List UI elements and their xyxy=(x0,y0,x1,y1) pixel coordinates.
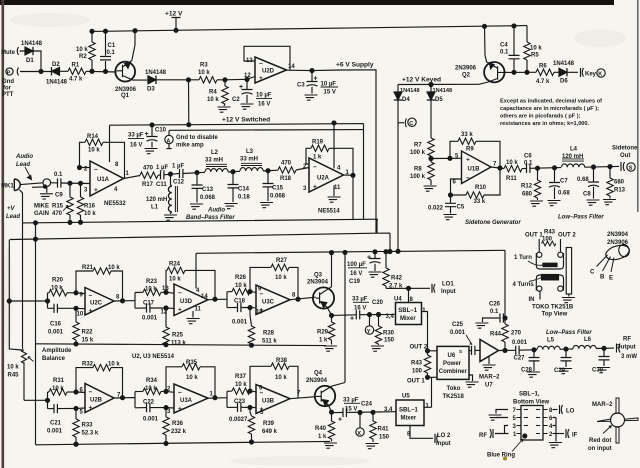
capacitor C16 xyxy=(48,304,77,336)
pin number labels left xyxy=(513,408,518,438)
svg-text:OUT 1: OUT 1 xyxy=(407,379,425,385)
svg-text:R15: R15 xyxy=(52,204,64,210)
diode D6 xyxy=(553,61,575,85)
svg-text:C17: C17 xyxy=(143,301,155,307)
node Sidetone Out connector xyxy=(612,146,638,172)
svg-text:C24: C24 xyxy=(361,402,373,408)
svg-text:+: + xyxy=(338,417,342,424)
svg-text:Blue Ring: Blue Ring xyxy=(487,453,515,459)
svg-text:R1: R1 xyxy=(72,63,80,69)
svg-text:150: 150 xyxy=(384,338,395,344)
junction pin9 xyxy=(74,291,78,295)
svg-text:−: − xyxy=(466,175,470,182)
capacitor C23 xyxy=(227,399,256,423)
junction pin10 U3C xyxy=(248,306,252,310)
svg-text:−: − xyxy=(313,164,317,171)
transformer TOKO top view xyxy=(536,248,571,300)
svg-text:OUT 1: OUT 1 xyxy=(525,233,543,239)
wire to U1B pin5 xyxy=(431,157,461,159)
junction row1 input xyxy=(46,299,50,303)
svg-text:SBL−1,: SBL−1, xyxy=(519,392,540,398)
junction ground link rail1 xyxy=(34,237,38,241)
svg-text:Band–Pass Filter: Band–Pass Filter xyxy=(186,215,235,221)
junction +12V switched tap xyxy=(187,78,191,82)
resistor R16 xyxy=(77,183,96,221)
wire C12 to L2 xyxy=(183,172,205,173)
junction U3A output xyxy=(213,396,217,400)
svg-text:R8: R8 xyxy=(414,167,422,173)
svg-text:S: S xyxy=(459,349,462,354)
wire row1 input xyxy=(9,293,47,309)
wire Q3 collector riser xyxy=(331,253,333,287)
svg-text:R17: R17 xyxy=(142,182,154,188)
svg-text:C: C xyxy=(409,121,413,127)
op-amp U2A xyxy=(303,158,350,192)
svg-text:MAR−2: MAR−2 xyxy=(592,402,613,408)
svg-text:3 mW: 3 mW xyxy=(621,354,637,360)
svg-text:R25: R25 xyxy=(172,333,184,339)
capacitor C15 xyxy=(263,171,286,201)
svg-text:−: − xyxy=(94,167,98,174)
junction Q1 emitter rail xyxy=(133,29,137,33)
svg-text:0.001: 0.001 xyxy=(512,340,528,346)
ground below C19 xyxy=(366,272,381,277)
junction Q3 emitter node xyxy=(330,313,334,317)
svg-text:+6 V Supply: +6 V Supply xyxy=(336,62,374,69)
svg-text:120 mH: 120 mH xyxy=(562,154,583,160)
junction pin13 xyxy=(164,290,168,294)
svg-text:C15: C15 xyxy=(272,186,284,192)
svg-text:LO1: LO1 xyxy=(442,282,454,288)
svg-text:SBL−1: SBL−1 xyxy=(399,408,419,414)
svg-text:C18: C18 xyxy=(234,299,246,305)
svg-text:capacitance are in microfarads: capacitance are in microfarads ( µF ); xyxy=(500,106,599,112)
wire row2 input xyxy=(24,392,48,409)
svg-text:649 k: 649 k xyxy=(262,429,278,435)
svg-text:R3: R3 xyxy=(200,63,208,69)
resistor R9 feedback xyxy=(448,132,500,168)
svg-text:NE5514: NE5514 xyxy=(318,209,340,215)
wire R2 bottom stem xyxy=(91,60,93,71)
wire L5 to L6 xyxy=(560,348,573,350)
svg-text:SBL−1: SBL−1 xyxy=(398,308,418,314)
wire U3A output xyxy=(208,391,227,407)
capacitor C9 xyxy=(54,172,63,199)
ground below C10 xyxy=(142,149,157,154)
svg-text:IF: IF xyxy=(572,433,578,439)
svg-text:2N3906: 2N3906 xyxy=(455,66,477,72)
label Red dot on input xyxy=(588,426,612,453)
scan border top xyxy=(0,0,614,5)
ground below R13 xyxy=(601,200,616,205)
svg-text:C23: C23 xyxy=(234,399,246,405)
resistor R2 xyxy=(76,42,95,60)
resistor R14 xyxy=(85,134,103,154)
wire D2 to R1 xyxy=(60,70,69,72)
junction C30 xyxy=(602,346,606,350)
resistor R31 xyxy=(48,378,77,395)
junction C10 top xyxy=(150,123,154,127)
ground below L1 xyxy=(162,215,177,220)
ground toko right stub xyxy=(560,298,575,303)
svg-text:1N4148: 1N4148 xyxy=(46,80,68,86)
svg-text:U3D: U3D xyxy=(180,299,193,305)
wire D3 to R3 xyxy=(156,79,199,81)
junction pin5 xyxy=(74,406,78,410)
inductor L2 xyxy=(205,150,228,172)
wire pin9 xyxy=(76,292,85,295)
inductor L3 xyxy=(240,149,263,171)
resistor R32 feedback xyxy=(76,362,123,398)
svg-text:IN: IN xyxy=(529,297,535,303)
junction OUT1 xyxy=(426,375,430,379)
svg-text:MAR−2: MAR−2 xyxy=(479,375,500,381)
svg-text:R43: R43 xyxy=(544,230,556,236)
svg-text:Audio: Audio xyxy=(15,154,33,160)
svg-text:C25: C25 xyxy=(452,322,464,328)
scan border right xyxy=(637,0,639,212)
wire pins 7 5 to ground xyxy=(496,410,508,418)
svg-text:Gnd: Gnd xyxy=(2,79,14,85)
capacitor C22 xyxy=(135,400,174,423)
svg-text:U6: U6 xyxy=(448,353,456,359)
resistor R12 xyxy=(521,168,541,200)
svg-text:A: A xyxy=(166,138,170,144)
op-amp U3A xyxy=(167,384,214,415)
svg-text:33 µF: 33 µF xyxy=(352,297,368,303)
wire U2D feedback loop xyxy=(244,46,290,70)
svg-text:12: 12 xyxy=(161,310,168,316)
svg-text:270: 270 xyxy=(511,331,522,337)
svg-text:C2: C2 xyxy=(232,97,240,103)
svg-text:Mixer: Mixer xyxy=(400,316,416,322)
junction U1B output xyxy=(498,166,502,170)
junction R33 rail xyxy=(74,442,78,446)
svg-text:U1B: U1B xyxy=(468,167,481,173)
svg-text:1 k: 1 k xyxy=(319,338,328,344)
wire U2D output xyxy=(287,70,377,233)
wire switched drop xyxy=(188,80,190,125)
ground below C2 xyxy=(238,104,253,109)
junction Q2 emitter rail xyxy=(483,24,487,28)
junction C4 rail xyxy=(512,24,516,28)
node C connector xyxy=(405,118,416,127)
svg-text:Red dot: Red dot xyxy=(589,438,611,444)
svg-text:R26: R26 xyxy=(235,275,247,281)
svg-text:C1: C1 xyxy=(108,43,116,49)
capacitor C4 xyxy=(500,26,520,72)
resistor R18 xyxy=(278,161,296,183)
junction R39 rail xyxy=(250,440,254,444)
resistor R10 feedback xyxy=(451,168,501,205)
svg-text:15 k: 15 k xyxy=(82,338,94,344)
junction Q3 collector rail xyxy=(330,251,334,255)
capacitor C26 xyxy=(483,302,506,323)
capacitor C11 xyxy=(156,165,168,188)
svg-text:U4: U4 xyxy=(394,297,402,303)
svg-text:33 µF: 33 µF xyxy=(343,398,359,404)
svg-text:0.001: 0.001 xyxy=(143,417,159,423)
inductor L1 xyxy=(146,174,177,214)
ground sbl left xyxy=(486,415,501,420)
capacitor C5 xyxy=(428,195,465,214)
node Y test point xyxy=(365,313,373,335)
svg-text:100 k: 100 k xyxy=(410,174,426,180)
svg-text:C20: C20 xyxy=(372,300,384,306)
ground below U2A pin11 xyxy=(325,197,340,202)
wire box top xyxy=(169,129,364,132)
svg-text:1 Turn: 1 Turn xyxy=(514,255,532,261)
svg-text:Low–Pass Filter: Low–Pass Filter xyxy=(558,215,604,221)
svg-text:R14: R14 xyxy=(87,134,99,140)
resistor R30 xyxy=(375,315,394,346)
svg-text:C11: C11 xyxy=(156,182,167,188)
wire U4 out to combiner xyxy=(422,312,438,351)
resistor R1 xyxy=(68,63,86,83)
junction R28 rail xyxy=(250,343,254,347)
svg-text:U2C: U2C xyxy=(90,301,103,307)
svg-text:0.001: 0.001 xyxy=(48,330,64,336)
junction U3C output xyxy=(296,297,300,301)
svg-text:Input: Input xyxy=(441,289,456,295)
svg-text:C12: C12 xyxy=(173,180,185,186)
svg-text:Lead: Lead xyxy=(6,214,20,220)
label SBL-1 Bottom View xyxy=(513,392,550,406)
svg-text:100 k: 100 k xyxy=(410,150,426,156)
svg-text:R41: R41 xyxy=(378,427,390,433)
resistor R26 xyxy=(227,275,256,295)
resistor R33 xyxy=(73,408,99,444)
wire D1 to PTT line xyxy=(34,51,42,71)
inductor L4 xyxy=(562,147,585,168)
junction R25 rail xyxy=(164,343,168,347)
svg-text:+: + xyxy=(89,405,93,412)
svg-text:10 k: 10 k xyxy=(186,375,198,381)
svg-text:16 V: 16 V xyxy=(258,102,270,108)
capacitor C24 xyxy=(334,398,397,424)
diode D1 xyxy=(21,41,43,64)
svg-text:Audio: Audio xyxy=(207,208,225,214)
ground below C30 xyxy=(595,368,610,373)
svg-text:0.068: 0.068 xyxy=(270,194,286,200)
svg-text:B: B xyxy=(600,275,605,281)
svg-text:Sidetone: Sidetone xyxy=(612,146,638,152)
svg-text:C27: C27 xyxy=(514,356,526,362)
junction U3D output xyxy=(213,297,217,301)
capacitor C18 xyxy=(227,299,256,326)
svg-text:1N4148: 1N4148 xyxy=(553,61,575,67)
junction C3 top xyxy=(310,69,314,73)
wire U6 gnd stub xyxy=(469,375,473,381)
wire C20 line xyxy=(332,314,396,315)
svg-text:232 k: 232 k xyxy=(171,429,187,435)
svg-text:+: + xyxy=(178,406,182,413)
svg-text:4.7 k: 4.7 k xyxy=(69,77,83,83)
resistor R21 feedback xyxy=(76,265,123,301)
transistor Q3 2N3904 xyxy=(307,273,334,316)
node Mute input xyxy=(1,47,25,56)
resistor R42 xyxy=(383,250,403,290)
svg-text:U7: U7 xyxy=(485,383,493,389)
svg-text:10 k: 10 k xyxy=(235,283,247,289)
svg-text:U2D: U2D xyxy=(262,69,275,75)
svg-text:10 k: 10 k xyxy=(84,211,96,217)
ground below C29 xyxy=(557,369,572,374)
svg-text:R20: R20 xyxy=(52,278,64,284)
svg-text:+12 V Switched: +12 V Switched xyxy=(222,117,270,124)
power combiner U6 xyxy=(437,346,469,400)
junction pin10 xyxy=(74,306,78,310)
svg-text:Balance: Balance xyxy=(42,356,66,362)
capacitor C6 xyxy=(522,154,533,173)
resistor R41 xyxy=(370,412,390,442)
svg-text:470: 470 xyxy=(281,161,292,167)
svg-text:others are in picofarads ( pF: others are in picofarads ( pF ); xyxy=(500,114,581,120)
wire C9 to U1A pin3 xyxy=(61,182,90,185)
junction C8 top xyxy=(592,165,596,169)
resistor R34 xyxy=(135,378,174,395)
wire pins U2B xyxy=(76,392,85,408)
junction C1 bottom xyxy=(104,69,108,73)
wire Q2 base to R6 xyxy=(504,71,536,73)
svg-text:MK1: MK1 xyxy=(1,184,14,190)
svg-text:R28: R28 xyxy=(263,331,275,337)
svg-text:−: − xyxy=(259,61,263,68)
resistor R6 xyxy=(536,64,554,86)
ground below U3D xyxy=(184,319,199,324)
junction pin2 xyxy=(78,166,82,170)
svg-text:C19: C19 xyxy=(349,279,361,285)
blue ring ink dot xyxy=(503,457,507,461)
svg-text:0.68: 0.68 xyxy=(577,177,589,183)
svg-text:2N3904: 2N3904 xyxy=(306,378,328,384)
svg-text:Input: Input xyxy=(436,441,451,447)
svg-text:R24: R24 xyxy=(169,262,181,268)
junction C7 top xyxy=(553,166,557,170)
svg-text:C10: C10 xyxy=(155,128,167,134)
wire L2 to L3 xyxy=(228,170,240,173)
label 4 Turns with arrow xyxy=(513,278,542,289)
wire U3C output to Q3 xyxy=(290,297,316,300)
svg-text:1N4148: 1N4148 xyxy=(433,88,453,94)
junction R15 bottom rail xyxy=(68,220,72,224)
rail row1 ground xyxy=(36,344,327,346)
svg-text:PTT: PTT xyxy=(2,92,14,98)
svg-text:16 V: 16 V xyxy=(354,306,366,312)
svg-text:Toko: Toko xyxy=(447,386,461,392)
svg-text:16 V: 16 V xyxy=(130,143,142,149)
package SBL-1 bottom view xyxy=(517,406,548,441)
wire U2A pin4 supply xyxy=(333,123,335,169)
svg-text:U2B: U2B xyxy=(90,398,103,404)
op-amp U1B xyxy=(453,151,498,186)
label OUT1 R43 OUT2 (toko detail) xyxy=(525,230,576,239)
svg-text:11: 11 xyxy=(195,307,202,313)
svg-text:150: 150 xyxy=(379,435,390,441)
resistor R20 xyxy=(48,278,77,296)
svg-text:120 mH: 120 mH xyxy=(146,197,167,203)
junction R15 top xyxy=(68,181,72,185)
transistor package drawing xyxy=(597,243,631,272)
diode D4 xyxy=(394,85,420,104)
svg-text:470: 470 xyxy=(52,211,63,217)
wire U1B output xyxy=(491,167,504,169)
junction R4 top xyxy=(223,78,227,82)
wire U7 output xyxy=(499,349,516,351)
ground below R8 xyxy=(421,186,436,191)
svg-text:1 µF: 1 µF xyxy=(156,165,168,171)
wire R2 top to +12V rail xyxy=(91,31,93,42)
wire L4 to out xyxy=(585,165,619,168)
junction pin12 xyxy=(164,306,168,310)
svg-text:11: 11 xyxy=(334,185,341,191)
svg-text:Q2: Q2 xyxy=(462,73,471,79)
svg-text:R10: R10 xyxy=(475,185,487,191)
capacitor C17 xyxy=(135,301,174,322)
svg-text:E: E xyxy=(609,276,613,282)
svg-text:10 k: 10 k xyxy=(145,386,157,392)
svg-text:10 k: 10 k xyxy=(235,382,247,388)
svg-text:R42: R42 xyxy=(391,276,403,282)
wire R6 to D6 xyxy=(554,71,559,73)
label 1 Turn with arrow xyxy=(514,255,543,265)
label Blue Ring with arrow xyxy=(487,439,523,459)
capacitor C1 xyxy=(100,43,116,60)
op-amp U3C xyxy=(256,285,296,316)
transistor Q2 2N3906 xyxy=(455,26,504,84)
capacitor C12 xyxy=(172,164,185,186)
svg-text:R27: R27 xyxy=(276,258,288,264)
svg-text:R18: R18 xyxy=(280,176,292,182)
svg-text:D4: D4 xyxy=(402,97,410,103)
svg-text:R34: R34 xyxy=(146,378,158,384)
svg-text:mike amp: mike amp xyxy=(176,143,204,149)
wire MK1 to jack xyxy=(20,183,43,185)
junction L1 top xyxy=(169,172,173,176)
svg-text:R33: R33 xyxy=(82,423,94,429)
svg-text:10 k: 10 k xyxy=(506,160,518,166)
wire U2A pin11 ground stub xyxy=(333,186,335,197)
junction pin5 U3B xyxy=(248,405,252,409)
svg-text:R11: R11 xyxy=(506,176,517,182)
svg-text:10 k: 10 k xyxy=(108,362,120,368)
wire U1A output xyxy=(124,176,141,179)
wire U5 out riser xyxy=(431,377,433,407)
svg-text:10 k: 10 k xyxy=(207,97,219,103)
svg-text:C5: C5 xyxy=(457,205,465,211)
potentiometer R45 xyxy=(7,350,34,401)
capacitor C30 xyxy=(592,348,610,373)
svg-text:L3: L3 xyxy=(246,149,254,155)
svg-text:C6: C6 xyxy=(524,154,532,160)
svg-text:Key: Key xyxy=(585,71,597,77)
svg-text:+: + xyxy=(367,255,371,262)
resistor R25 xyxy=(163,308,187,346)
resistor R29 xyxy=(317,315,335,344)
junction C1 rail xyxy=(104,29,108,33)
wire PTT line to D2 xyxy=(20,71,52,73)
svg-text:R44: R44 xyxy=(490,332,502,338)
svg-text:Top View: Top View xyxy=(542,312,568,318)
svg-text:TOKO TK251B: TOKO TK251B xyxy=(532,305,574,311)
junction pin4 switched xyxy=(332,121,336,125)
svg-text:Y: Y xyxy=(367,329,371,335)
svg-text:R5: R5 xyxy=(531,53,539,59)
svg-text:1 k: 1 k xyxy=(318,434,327,440)
svg-text:+: + xyxy=(239,84,243,91)
ground below C14 xyxy=(222,204,237,209)
resistor R36 xyxy=(163,408,187,444)
